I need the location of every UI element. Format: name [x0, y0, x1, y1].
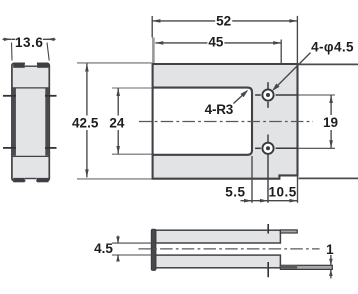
45 left extension gray strip	[152, 38, 155, 64]
42.5 bottom extension line	[77, 178, 152, 180]
19 extension line bottom	[299, 147, 336, 149]
svg-text:4.5: 4.5	[94, 241, 113, 256]
bottom lens strip dark root	[280, 265, 297, 269]
24 extension line bottom	[112, 153, 152, 155]
svg-text:4-φ4.5: 4-φ4.5	[311, 40, 354, 55]
leader 4-R3	[234, 90, 249, 104]
centerline main view	[139, 121, 313, 123]
side view upper parting line	[12, 87, 49, 89]
bottom view bottom bar	[156, 255, 281, 268]
svg-text:45: 45	[208, 34, 224, 49]
bottom view left end cap	[151, 229, 156, 270]
dimension 1	[329, 255, 333, 278]
svg-text:42.5: 42.5	[72, 115, 99, 130]
side view upper optical tick right	[45, 95, 57, 97]
bottom edge extension right	[299, 177, 358, 179]
side view top mounting tab right	[37, 63, 48, 68]
top lens strip	[280, 230, 297, 233]
svg-text:4-R3: 4-R3	[205, 102, 234, 117]
svg-text:13.6: 13.6	[15, 35, 43, 50]
svg-text:5.5: 5.5	[225, 185, 245, 200]
svg-text:19: 19	[323, 115, 338, 130]
side view right face strip	[45, 89, 49, 156]
bottom lens strip	[280, 265, 332, 269]
dimension 13.6 extension right	[47, 43, 49, 61]
45 right extension	[280, 40, 282, 64]
5.5 extension line (slot end)	[251, 156, 253, 203]
52 right extension	[296, 16, 298, 63]
dimension 4.5	[116, 236, 120, 262]
side view lower optical tick right	[45, 147, 57, 149]
dimension 45	[155, 34, 281, 49]
dimension 13.6 extension left	[11, 43, 14, 61]
top edge extension right	[299, 63, 358, 65]
side view left face strip	[12, 89, 16, 156]
optical axis tick top	[267, 224, 269, 234]
dimension 4.5 extension top	[112, 242, 152, 244]
bottom view centerline	[138, 248, 319, 250]
42.5 top extension line	[77, 62, 152, 64]
dimension 42.5	[72, 64, 99, 178]
dimension 4.5 extension bottom	[112, 254, 152, 256]
side view body	[12, 62, 49, 183]
dimension 13.6 line	[3, 36, 56, 48]
svg-text:24: 24	[109, 115, 125, 130]
side view top mounting tab left	[13, 63, 25, 68]
dimension 24	[109, 88, 125, 154]
19 extension line top	[299, 94, 336, 96]
10.5 extension line (body right edge)	[297, 177, 299, 203]
dimension 19	[323, 95, 338, 148]
front view body U-shape	[153, 64, 298, 179]
bottom view top bar	[156, 230, 281, 243]
mounting hole lower	[255, 135, 297, 203]
side view lower optical tick left	[3, 147, 16, 149]
leader 4-phi4.5	[272, 53, 311, 92]
svg-text:10.5: 10.5	[268, 185, 296, 200]
side view upper optical tick left	[3, 95, 16, 97]
mounting hole upper	[255, 82, 297, 108]
dimension 5.5 / 10.5 line	[241, 199, 298, 203]
side view bottom tab right	[37, 178, 49, 182]
side view bottom tab left	[13, 178, 25, 182]
svg-text:1: 1	[326, 242, 334, 257]
svg-text:52: 52	[216, 14, 231, 29]
side view lower parting line	[12, 155, 49, 157]
24 extension line top	[112, 87, 152, 89]
dimension 52	[152, 14, 297, 29]
optical axis tick bottom	[267, 262, 269, 277]
52 left extension	[151, 16, 153, 38]
